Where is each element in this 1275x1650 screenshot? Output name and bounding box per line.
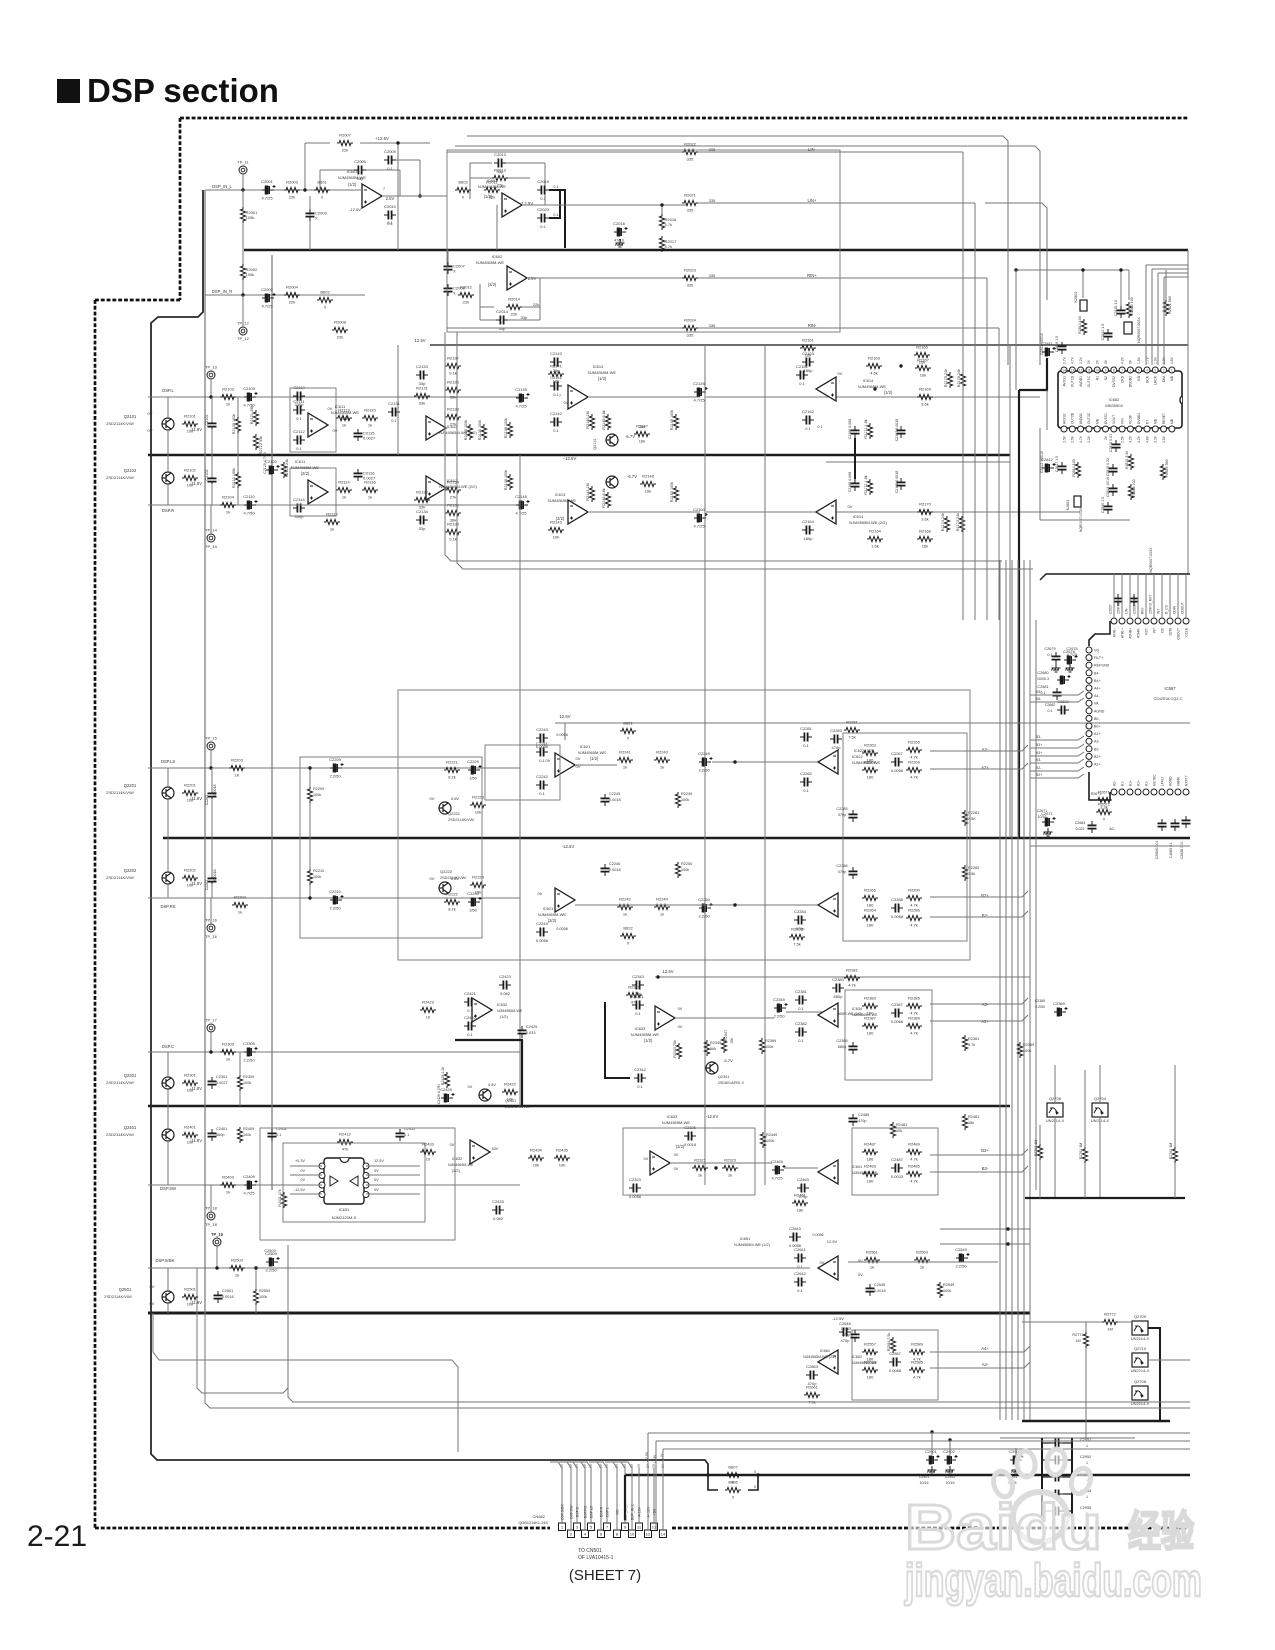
svg-text:R2024: R2024 — [684, 318, 697, 323]
svg-text:C2485: C2485 — [858, 1113, 869, 1117]
svg-text:AVSS1: AVSS1 — [1062, 376, 1066, 387]
capacitor C2241 — [540, 748, 543, 757]
wire — [1085, 1322, 1087, 1332]
svg-text:IC633: IC633 — [635, 1026, 646, 1031]
svg-text:C2387: C2387 — [891, 1002, 904, 1007]
resistor R2012 — [458, 292, 474, 297]
capacitor C2381 — [799, 996, 802, 1005]
svg-text:R2773: R2773 — [1072, 1333, 1083, 1337]
vertical lin- to ic667 — [962, 152, 964, 620]
capacitor C2818 — [1112, 444, 1121, 447]
capacitor C2131 — [392, 408, 395, 417]
wire — [508, 319, 540, 321]
capacitor C2411 — [268, 1133, 277, 1136]
pin 15 IC682 bottom — [1061, 426, 1067, 432]
svg-text:CDIN: CDIN — [1172, 605, 1176, 614]
pin IC631 left 4 — [319, 1192, 325, 1198]
wire c2815 stub — [1120, 270, 1122, 306]
op-amp IC614 (1/2) — [816, 377, 836, 401]
svg-text:R2209: R2209 — [313, 787, 324, 791]
resistor R2204 — [232, 902, 248, 907]
svg-text:C2281: C2281 — [800, 726, 813, 731]
electrolytic C2678 — [1064, 655, 1078, 664]
watermark baidu paw logo — [990, 1448, 1093, 1542]
svg-text:4.8V: 4.8V — [1162, 435, 1166, 443]
svg-text:2.2/50: 2.2/50 — [329, 774, 341, 779]
svg-text:335: 335 — [709, 198, 716, 203]
pin IC667 left B0+ — [1086, 723, 1092, 729]
wire inv — [309, 196, 311, 215]
svg-text:C2168 0.0018: C2168 0.0018 — [895, 471, 899, 494]
wire — [290, 1165, 322, 1167]
svg-text:C2952: C2952 — [1080, 1455, 1091, 1459]
svg-text:335: 335 — [687, 333, 694, 338]
capacitor C2242 — [540, 781, 543, 790]
op-amp IC614 (2/2) — [816, 500, 836, 524]
svg-text:B0+: B0+ — [1094, 725, 1101, 729]
test point TP_12 — [239, 327, 247, 335]
wire opamp out — [382, 195, 447, 197]
svg-text:DVDD1: DVDD1 — [1137, 413, 1141, 424]
resistor R2347 — [721, 1037, 726, 1053]
wire rin+2 — [698, 277, 987, 279]
svg-text:4.7k: 4.7k — [665, 222, 673, 227]
svg-text:10k: 10k — [533, 1163, 539, 1168]
svg-text:IC633: IC633 — [667, 1114, 678, 1119]
wire C2951 l — [1042, 1442, 1051, 1444]
svg-text:Q2202: Q2202 — [124, 868, 137, 873]
resistor R2129 — [467, 424, 472, 440]
resistor R2224 — [470, 882, 486, 887]
wire — [239, 1091, 241, 1106]
svg-text:0.0018: 0.0018 — [213, 870, 217, 881]
svg-text:R2345: R2345 — [710, 1041, 721, 1045]
svg-text:220P D_RST: 220P D_RST — [1148, 595, 1152, 614]
svg-text:C2341: C2341 — [632, 994, 645, 999]
svg-text:2SD2114K/VW/: 2SD2114K/VW/ — [106, 475, 135, 480]
svg-text:C2001: C2001 — [261, 179, 274, 184]
IC IC631 NJM2120M-S — [324, 1158, 364, 1204]
resistor R2343 — [676, 1043, 681, 1059]
thick wire c2019 — [549, 190, 565, 248]
svg-text:C2816 1.5: C2816 1.5 — [1055, 336, 1059, 352]
connector pin 10 CN682 — [629, 1530, 636, 1538]
thick wire pin — [624, 1475, 626, 1520]
wire r2761 dn — [1084, 1163, 1086, 1198]
capacitor C2281 — [804, 733, 807, 742]
vertical bus x272 — [271, 255, 273, 1190]
box a4 cluster — [852, 1330, 938, 1400]
svg-text:C2641: C2641 — [794, 1247, 807, 1252]
svg-text:R2242: R2242 — [619, 897, 632, 902]
wire — [304, 143, 306, 190]
wire — [1085, 1348, 1087, 1438]
svg-text:C2343: C2343 — [632, 974, 645, 979]
svg-text:-6.7V: -6.7V — [627, 474, 637, 479]
svg-text:R2132: R2132 — [416, 490, 429, 495]
svg-text:C2111: C2111 — [293, 399, 305, 404]
svg-text:A3+: A3+ — [1094, 732, 1101, 736]
resistor R2115 — [362, 415, 378, 420]
filter K2803 — [1074, 496, 1081, 507]
digital transistor Q2709 — [1132, 1321, 1148, 1335]
dashed border bottom left — [95, 1527, 550, 1530]
wire sbk to ic651 — [430, 1267, 810, 1269]
resistor R2772 — [1102, 1319, 1118, 1324]
svg-text:R2110 100k: R2110 100k — [232, 468, 236, 488]
svg-text:1k: 1k — [342, 495, 346, 500]
resistor R2763 — [1037, 1144, 1042, 1160]
digital transistor Q2706 — [1047, 1103, 1063, 1117]
svg-text:CDOUT: CDOUT — [1180, 602, 1184, 614]
connector pin 9 CN682 — [622, 1523, 629, 1531]
svg-text:R2174 24k: R2174 24k — [941, 513, 945, 531]
junction — [899, 364, 902, 367]
resistor R2762 — [1172, 1147, 1177, 1163]
wire b3- — [930, 1166, 1028, 1172]
svg-text:100k: 100k — [259, 1295, 267, 1299]
wire rs out — [575, 904, 828, 906]
wire C2953 l — [1042, 1476, 1051, 1478]
pin IC631 right 8 — [363, 1163, 369, 1169]
wire — [242, 280, 244, 295]
svg-text:C2383: C2383 — [832, 977, 845, 982]
svg-text:4.7k: 4.7k — [910, 1157, 918, 1162]
wire ic613 out — [588, 396, 700, 398]
svg-text:R2004: R2004 — [286, 285, 299, 290]
wire — [447, 250, 449, 262]
svg-text:0V: 0V — [150, 1284, 155, 1289]
electrolytic C2409 — [244, 1180, 258, 1189]
transistor Q2141 — [606, 434, 618, 446]
svg-text:50V: 50V — [492, 1147, 499, 1151]
pin IC667 top 13 — [1135, 618, 1141, 624]
svg-text:0.0056: 0.0056 — [556, 733, 568, 737]
electrolytic C2369 — [1054, 1007, 1068, 1016]
svg-text:0V: 0V — [678, 1025, 683, 1029]
svg-text:C2678: C2678 — [1066, 647, 1077, 651]
svg-text:220P LIN+: 220P LIN+ — [1116, 598, 1120, 614]
wire ic667 top pin 9 — [1185, 574, 1187, 618]
svg-text:C2401: C2401 — [216, 1127, 227, 1131]
op-amp IC622 (2/2) — [818, 893, 838, 917]
wire — [470, 177, 492, 179]
capacitor — [1055, 1456, 1058, 1465]
svg-text:470p: 470p — [838, 870, 846, 874]
junction — [706, 1473, 709, 1476]
box c2114 group — [290, 468, 336, 516]
svg-text:DS: DS — [1160, 627, 1164, 632]
svg-text:R2249: R2249 — [681, 792, 692, 796]
svg-text:NJM4565M-WE: NJM4565M-WE — [588, 370, 617, 375]
svg-text:R2133: R2133 — [447, 407, 460, 412]
svg-text:OUT1D: OUT1D — [1071, 375, 1075, 387]
svg-text:(SHEET 7): (SHEET 7) — [569, 1567, 641, 1584]
bus line y1421 — [1022, 1420, 1170, 1422]
wire — [479, 284, 481, 320]
capacitor C2814 — [1104, 333, 1113, 336]
wire — [167, 1052, 169, 1077]
svg-text:0.1: 0.1 — [798, 1006, 804, 1011]
resistor R2101 — [182, 421, 198, 426]
svg-text:0.1: 0.1 — [387, 166, 393, 171]
capacitor C2382 — [799, 1028, 802, 1037]
svg-text:0.082: 0.082 — [493, 1216, 504, 1221]
svg-text:C2112: C2112 — [293, 429, 305, 434]
svg-text:3.6k: 3.6k — [921, 517, 929, 522]
svg-text:B603: B603 — [458, 180, 468, 185]
svg-text:R2385: R2385 — [908, 996, 921, 1001]
svg-text:330p: 330p — [295, 514, 305, 519]
svg-text:A2+: A2+ — [1094, 763, 1101, 767]
svg-text:0.0027: 0.0027 — [363, 476, 376, 481]
svg-text:0.0018: 0.0018 — [609, 798, 621, 802]
svg-text:4.7k: 4.7k — [910, 1179, 918, 1184]
svg-text:TP_19: TP_19 — [211, 1232, 224, 1237]
svg-text:4.7/25: 4.7/25 — [1067, 653, 1078, 657]
wire +12.5 down — [397, 143, 399, 250]
svg-text:IC641: IC641 — [852, 1165, 862, 1169]
svg-text:ATHL+: ATHL+ — [1120, 628, 1124, 638]
wire conn bend — [565, 1462, 577, 1468]
svg-text:CS42518-CQZ-C: CS42518-CQZ-C — [1153, 697, 1182, 701]
svg-text:A0-: A0- — [1109, 827, 1115, 831]
wire ic667 top pin 2 — [1129, 574, 1131, 618]
junction — [254, 1266, 257, 1269]
capacitor C2019 — [541, 186, 544, 195]
svg-text:335: 335 — [709, 147, 716, 152]
svg-text:335: 335 — [687, 283, 694, 288]
svg-text:0: 0 — [754, 1485, 756, 1489]
pin 28 IC682 bottom — [1169, 426, 1175, 432]
svg-text:R2149 100k: R2149 100k — [670, 410, 674, 431]
connector pin 12 CN682 — [645, 1530, 652, 1538]
svg-text:3.3V: 3.3V — [1154, 435, 1158, 443]
svg-text:1k: 1k — [235, 1273, 239, 1278]
capacitor C2813 — [1109, 488, 1118, 491]
svg-text:R2241: R2241 — [619, 750, 632, 755]
svg-text:-11.8V: -11.8V — [190, 481, 202, 486]
svg-text:B622: B622 — [623, 926, 633, 931]
svg-text:C2267: C2267 — [891, 751, 904, 756]
svg-text:0.0056: 0.0056 — [556, 927, 568, 931]
svg-text:R2485: R2485 — [908, 1164, 921, 1169]
svg-text:27k: 27k — [450, 495, 456, 500]
op-amp IC612 (2/2) — [426, 476, 446, 500]
wire B2- — [1030, 767, 1084, 771]
svg-text:Q2141: Q2141 — [593, 438, 597, 449]
wire q2704 — [1099, 1117, 1101, 1198]
svg-text:R2150 100k: R2150 100k — [670, 482, 674, 503]
resistor R2016 — [659, 214, 664, 230]
svg-text:0.1: 0.1 — [798, 1038, 804, 1043]
resistor R2243 — [654, 757, 670, 762]
svg-text:33p: 33p — [357, 176, 364, 181]
svg-text:C2902: C2902 — [945, 1475, 956, 1479]
svg-text:TP_16: TP_16 — [205, 934, 218, 939]
svg-text:2.2/50: 2.2/50 — [1035, 1005, 1045, 1009]
resistor R2585 — [909, 1367, 925, 1372]
svg-text:K2803: K2803 — [1066, 500, 1070, 510]
svg-text:IC614: IC614 — [863, 378, 874, 383]
svg-text:0V: 0V — [848, 504, 853, 509]
svg-text:C2250: C2250 — [698, 897, 711, 902]
svg-text:0.0068: 0.0068 — [891, 768, 904, 773]
svg-text:4.7/25: 4.7/25 — [771, 1176, 783, 1181]
svg-text:R2401: R2401 — [184, 1125, 197, 1130]
svg-text:0.1: 0.1 — [803, 788, 809, 793]
svg-text:0V: 0V — [644, 1157, 649, 1161]
svg-text:2SD2114K/VW/: 2SD2114K/VW/ — [448, 818, 475, 822]
pin 23 IC682 bottom — [1127, 426, 1133, 432]
wire ic667 top pin 4 — [1145, 574, 1147, 618]
wire pin 1 — [561, 1468, 563, 1523]
resistor R2409 — [237, 1127, 242, 1143]
svg-text:C2285: C2285 — [836, 807, 847, 811]
svg-text:R2123 24k: R2123 24k — [285, 459, 289, 477]
svg-text:R2433: R2433 — [422, 1142, 435, 1147]
junction — [209, 1050, 212, 1053]
resistor R2143 — [548, 527, 564, 532]
capacitor C2288 — [895, 904, 898, 913]
resistor R2485 — [906, 1171, 922, 1176]
wire — [496, 205, 498, 250]
resistor R2023 — [682, 275, 698, 280]
svg-text:C2010: C2010 — [384, 204, 397, 209]
op-amp IC613 (1/2) — [568, 385, 588, 409]
svg-text:1: 1 — [1086, 1461, 1088, 1465]
wire r2007 left — [305, 142, 330, 144]
resistor R2411 — [281, 1192, 286, 1208]
svg-text:8: 8 — [1113, 368, 1115, 372]
svg-text:2.2/50: 2.2/50 — [698, 768, 710, 773]
svg-text:6: 6 — [1130, 368, 1132, 372]
svg-text:C2349: C2349 — [773, 997, 786, 1002]
wire ic667 top pin 5 — [1153, 574, 1155, 618]
transistor Q2501 — [162, 1291, 174, 1303]
capacitor C2246 — [601, 868, 610, 871]
svg-text:C2139: C2139 — [515, 387, 528, 392]
resistor R2139 — [507, 422, 512, 438]
resistor R2435 — [554, 1155, 570, 1160]
svg-text:H1: H1 — [1096, 376, 1100, 380]
svg-text:16k: 16k — [639, 439, 645, 444]
svg-text:R2008: R2008 — [334, 320, 347, 325]
capacitor C2114 — [297, 504, 300, 513]
capacitor C2323 — [633, 1184, 636, 1193]
svg-text:C2019: C2019 — [537, 179, 550, 184]
svg-text:X: X — [627, 736, 630, 741]
svg-text:470p: 470p — [858, 1119, 866, 1123]
wire r2007 right — [360, 142, 430, 144]
wire lin-2 — [698, 151, 963, 153]
svg-text:K7: K7 — [1145, 420, 1149, 424]
svg-text:R2148: R2148 — [642, 474, 655, 479]
wire C2955 r — [1063, 1510, 1072, 1512]
wire to right2 — [706, 511, 1080, 513]
svg-text:R2144 1M: R2144 1M — [586, 483, 590, 501]
section box top — [447, 150, 840, 332]
wire — [167, 484, 169, 505]
wire pin drop 0 — [1145, 265, 1147, 365]
wire — [237, 455, 239, 472]
resistor R2403 — [220, 1182, 236, 1187]
svg-text:C2429: C2429 — [440, 1087, 453, 1092]
resistor R2021 — [682, 200, 698, 205]
capacitor C2112 — [297, 436, 300, 445]
svg-text:MN35503: MN35503 — [1105, 403, 1123, 408]
wire q2706 up — [1054, 1065, 1056, 1103]
resistor B606 — [725, 1487, 741, 1492]
electrolytic C2429 — [441, 1093, 455, 1102]
capacitor C2663 — [810, 1371, 813, 1380]
svg-text:R2135: R2135 — [447, 380, 460, 385]
box c2113 group — [290, 388, 336, 452]
pin IC631 left 3 — [319, 1182, 325, 1188]
pin IC667 left B2+ — [1086, 753, 1092, 759]
svg-text:0.1: 0.1 — [1048, 709, 1053, 713]
svg-text:C2014: C2014 — [496, 309, 509, 314]
resistor R2433 — [420, 1149, 436, 1154]
gray box bottom mid — [197, 1245, 288, 1393]
resistor B602 — [317, 297, 333, 302]
wire a3+ — [930, 1015, 1028, 1021]
svg-text:RIN+: RIN+ — [807, 273, 817, 278]
resistor R2209 — [307, 787, 312, 803]
electrolytic C2509 — [266, 1257, 280, 1266]
svg-text:1M: 1M — [1075, 1339, 1080, 1343]
svg-text:XOUT: XOUT — [1112, 415, 1116, 424]
capacitor C2383 — [836, 984, 839, 993]
wire a4 top — [848, 1261, 998, 1263]
svg-text:DVSS1: DVSS1 — [1104, 413, 1108, 424]
svg-text:AVDD2: AVDD2 — [1079, 413, 1083, 424]
svg-text:IC651: IC651 — [740, 1236, 751, 1241]
junction — [756, 1473, 759, 1476]
svg-text:Q2221: Q2221 — [448, 811, 461, 816]
svg-text:12: 12 — [1079, 368, 1083, 372]
vertical bundle x1006 — [1005, 560, 1007, 1420]
pin IC667 bottom A1- — [1143, 789, 1149, 795]
svg-text:0.1: 0.1 — [387, 220, 393, 225]
svg-text:R2269: R2269 — [908, 760, 921, 765]
capacitor C2682 — [1061, 706, 1064, 715]
box ic621a — [485, 745, 560, 800]
resistor R2163 — [866, 363, 882, 368]
svg-text:R2169: R2169 — [919, 387, 932, 392]
wire b3+ — [930, 1149, 1028, 1155]
wire r2763 dn — [1039, 1160, 1041, 1198]
svg-text:R2114: R2114 — [338, 480, 350, 485]
svg-text:0.0068: 0.0068 — [891, 1019, 904, 1024]
svg-text:R2140 1M: R2140 1M — [586, 411, 590, 429]
wire — [1015, 1448, 1017, 1455]
resistor R2761 — [1082, 1147, 1087, 1163]
wire — [506, 162, 545, 164]
junction — [308, 896, 311, 899]
ground — [1066, 664, 1075, 672]
resistor R2004 — [284, 292, 300, 297]
resistor R2137 — [445, 363, 461, 368]
svg-text:C2685 0.1: C2685 0.1 — [1169, 842, 1173, 858]
resistor R2412 — [337, 1139, 353, 1144]
wire conn bend — [579, 1462, 591, 1468]
svg-text:R2161: R2161 — [802, 338, 815, 343]
svg-text:(1/2): (1/2) — [500, 1015, 509, 1019]
svg-text:10: 10 — [1095, 368, 1099, 372]
svg-text:R2171 1.8k: R2171 1.8k — [864, 419, 868, 439]
wire above ic667 — [1040, 574, 1190, 580]
